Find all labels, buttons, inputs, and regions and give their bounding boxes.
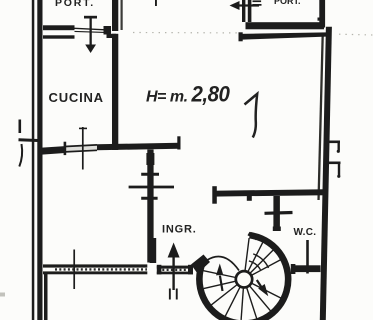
arrow up on staircase (216, 264, 223, 276)
svg-text:PORT.: PORT. (274, 0, 301, 6)
wire top outer wall right section (239, 32, 326, 39)
door tick 3 on interior wall (141, 197, 157, 200)
node balcony top-left right wall (112, 0, 118, 31)
wire wc bottom wall (291, 264, 296, 274)
node hall top wall end cap (212, 186, 217, 204)
wire faint top wall middle (scanned light) (133, 33, 373, 36)
door tick 1 on interior wall (129, 174, 174, 198)
door tick wc (265, 211, 293, 215)
door line crossing bottom wall (73, 250, 75, 290)
wire right outer wall inner thin line (317, 33, 324, 200)
window kitchen bottom wall (65, 145, 97, 152)
node small dash top middle (155, 0, 157, 6)
node entrance jamb (150, 238, 157, 263)
svg-text:CUCINA: CUCINA (49, 90, 104, 105)
wire kitchen bottom wall right thick (97, 143, 179, 150)
door entrance threshold (157, 266, 193, 269)
window tick wc bottom (306, 240, 309, 274)
staircase treads (203, 271, 281, 320)
svg-text:INGR.: INGR. (162, 224, 197, 236)
node faint dash left edge (0, 293, 5, 297)
wire balcony top-right bottom wall (246, 22, 325, 29)
wire balcony bottom wall (43, 25, 75, 30)
wire interior wall hall (147, 150, 153, 263)
wire balcony door threshold (75, 28, 106, 32)
window hook lower on right wall (328, 162, 341, 176)
wire kitchen right wall (112, 34, 118, 150)
node staircase arc right end cap (249, 234, 258, 239)
svg-text:W.C.: W.C. (294, 227, 317, 238)
node kitchen bottom wall end cap (177, 136, 180, 149)
wire junction threshold to staircase (191, 255, 210, 274)
window hook upper on right wall (328, 141, 341, 151)
staircase spiral outer wall arc (199, 236, 288, 320)
door arrow balcony to kitchen (84, 16, 97, 53)
node blob near balcony right wall (318, 18, 320, 21)
arrow down-right on staircase (258, 284, 268, 296)
svg-text:PORT.: PORT. (55, 0, 95, 9)
door arrow balcony top-right (230, 0, 262, 10)
staircase treads upper-right fan (245, 238, 281, 275)
door tick 2 on interior wall (129, 186, 174, 189)
node balcony top-right left wall (242, 0, 245, 22)
pen stroke numeral 1 (245, 94, 258, 138)
wire left outer wall thick line (37, 0, 42, 320)
staircase railing arc (207, 256, 240, 270)
node balcony door jamb (104, 26, 112, 35)
wire right outer wall (320, 27, 332, 320)
node door hinge dot (247, 196, 252, 201)
wire wc left wall (273, 196, 280, 231)
wire left outer wall thin line (32, 0, 35, 320)
wire kitchen bottom wall left thick (40, 146, 65, 155)
wire balcony top-right right wall (319, 0, 325, 28)
wire kitchen top wall (43, 35, 75, 38)
wire hall top wall towards wc (213, 189, 326, 196)
door line crossing kitchen bottom wall (79, 127, 87, 170)
wire left wall inner line below plan (44, 274, 48, 320)
door arrow entrance up (168, 243, 180, 300)
wire bottom wall west double line (43, 264, 147, 267)
staircase center column (236, 271, 252, 287)
node kitchen top wall corner (107, 34, 117, 38)
window hook on left wall (19, 120, 42, 167)
